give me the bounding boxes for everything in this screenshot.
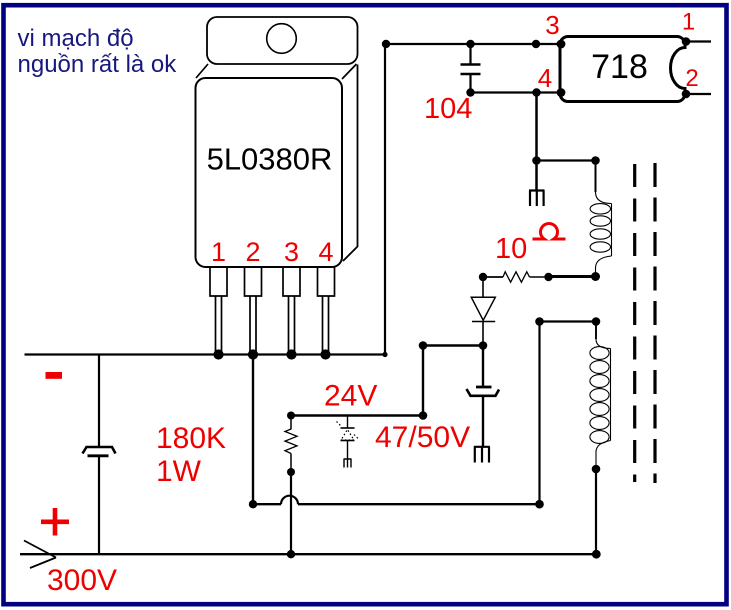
- junction at pin3 wire of U2: [532, 40, 540, 48]
- IC U1 pin 2 lead: [245, 267, 262, 353]
- arrow input 300V: [24, 541, 56, 569]
- svg-text:4: 4: [538, 63, 552, 93]
- svg-text:1: 1: [211, 237, 226, 267]
- transformer T1 core dashed left: [633, 164, 636, 482]
- optocoupler U2 718 body with notch: [560, 37, 685, 102]
- IC U1 side face: [343, 65, 358, 262]
- wire: R2 left lead: [483, 276, 503, 278]
- wire: U2 pin1 stub: [686, 40, 711, 42]
- junction R1 bottom: [287, 468, 295, 476]
- junction primary bottom: [591, 272, 600, 281]
- capacitor C1 104 leads: [469, 44, 471, 93]
- wire: secondary top lead: [595, 322, 597, 340]
- junction pin4-bus: [320, 349, 330, 359]
- junction aux top left: [535, 317, 544, 326]
- junction gnd node: [532, 156, 541, 165]
- svg-text:47/50V: 47/50V: [375, 421, 470, 454]
- wire: aux top y=321.5: [540, 320, 597, 322]
- junction riser corner: [382, 352, 387, 357]
- junction R2 right: [544, 273, 552, 281]
- svg-text:nguồn rất là ok: nguồn rất là ok: [18, 51, 178, 78]
- svg-text:1: 1: [682, 9, 695, 36]
- label ohm symbol: [533, 223, 566, 239]
- IC U1 pin 3 lead: [283, 267, 300, 353]
- wire: top rail y=44: [385, 43, 560, 45]
- wire: U2 pin4 down x=536.5: [535, 93, 538, 161]
- junction R1 top: [287, 412, 295, 420]
- junction pin3-bus: [286, 349, 296, 359]
- annotation note (blue): [18, 25, 178, 78]
- wire: bottom bus y=553.5: [20, 553, 596, 555]
- wire: negative bus y=354.5: [25, 353, 387, 355]
- svg-text:vi mạch độ: vi mạch độ: [18, 25, 134, 52]
- junction 24V rail right: [419, 411, 428, 420]
- capacitor C2 curved plate: [467, 389, 500, 396]
- wire: primary top lead thicker: [595, 161, 597, 193]
- wire: feedback y=503.5 right part: [298, 503, 540, 505]
- IC U1 pin 1 lead: [210, 267, 227, 353]
- ground G1 stem: [535, 161, 538, 191]
- diode D1 triangle: [471, 297, 495, 320]
- zener D2 top bar: [341, 427, 355, 429]
- junction U2 pin4: [557, 88, 566, 97]
- wire: secondary bottom down: [595, 469, 597, 554]
- wire hop over x=291: [281, 496, 298, 505]
- junction node A corner: [419, 341, 428, 350]
- wire: feedback up x=539: [538, 322, 540, 505]
- IC U1 pin 4 lead: [318, 267, 335, 353]
- junction aux top right: [592, 317, 601, 326]
- junction C1 bottom: [466, 88, 474, 96]
- svg-text:1W: 1W: [156, 455, 202, 488]
- junction U2 pin2: [682, 90, 691, 99]
- capacitor C2 flat plate: [476, 386, 492, 389]
- wire: pin2 feedback down x=253: [252, 355, 254, 505]
- transformer T1 secondary winding: [590, 322, 611, 470]
- junction pin2-bus: [248, 349, 258, 359]
- junction R1 wire at bottom bus: [287, 550, 295, 558]
- wire: U2 pin2 stub: [686, 93, 711, 95]
- label plus: [41, 508, 69, 536]
- wire: R1 bottom down to bottom bus: [290, 472, 292, 554]
- capacitor C1 104 plates: [461, 65, 481, 75]
- IC U1 body 5L0380R: [196, 78, 343, 267]
- junction secondary bottom: [592, 465, 601, 474]
- junction pin1-bus: [213, 349, 223, 359]
- diode D1 cathode lead: [482, 322, 484, 346]
- capacitor C2 47/50V top lead: [482, 346, 484, 388]
- svg-text:3: 3: [284, 237, 299, 267]
- svg-text:24V: 24V: [324, 380, 377, 413]
- ground G1 symbol: [529, 191, 545, 207]
- junction bottom bus right end: [592, 550, 601, 559]
- svg-text:10: 10: [495, 233, 527, 265]
- junction D1 anode node: [479, 273, 487, 281]
- capacitor C2 bottom lead: [482, 396, 484, 447]
- junction feedback corner: [249, 500, 257, 508]
- label minus: [46, 372, 63, 379]
- transformer T1 primary winding: [590, 161, 611, 277]
- svg-text:3: 3: [545, 10, 559, 40]
- zener D2 bottom lead: [347, 441, 349, 460]
- junction pin4 rail: [532, 88, 540, 96]
- IC U1 top face edges: [196, 64, 357, 79]
- junction feedback right corner: [535, 500, 544, 509]
- junction D1-C2 node: [479, 341, 488, 350]
- junction U2 pin1: [682, 37, 691, 46]
- capacitor C3 flat plate: [88, 454, 109, 457]
- junction primary top corner: [591, 156, 600, 165]
- wire: gnd node to primary top: [537, 159, 596, 161]
- resistor R1 180K top lead: [290, 416, 292, 430]
- junction C1 top: [466, 40, 474, 48]
- capacitor C3 curved plate: [83, 447, 116, 454]
- wire: node A down x=423: [422, 346, 424, 416]
- svg-text:718: 718: [591, 48, 648, 86]
- ground G3 mini symbol: [344, 459, 352, 468]
- svg-text:180K: 180K: [156, 422, 226, 455]
- diode D1 anode lead: [482, 277, 484, 297]
- resistor R1 180K zigzag: [285, 429, 297, 454]
- wire: C1 bottom to U2 pin4 y=92.5: [471, 91, 561, 93]
- wire: feedback y=503.5 left part: [253, 503, 281, 505]
- wire: riser x=385 up to top rail: [384, 44, 386, 355]
- capacitor C3 input top lead: [98, 355, 100, 448]
- IC U1 package tab: [207, 17, 358, 64]
- zener D2 dotted wings: [337, 422, 359, 440]
- wire: node A horizontal y=345.5: [423, 344, 483, 346]
- diode D1 cathode bar: [472, 321, 495, 323]
- svg-text:300V: 300V: [47, 564, 117, 597]
- wire: R2 right lead: [530, 276, 549, 278]
- svg-text:5L0380R: 5L0380R: [207, 142, 333, 177]
- wire: primary bottom to R2 (thick): [549, 275, 596, 278]
- svg-text:104: 104: [424, 93, 472, 125]
- zener D2 bottom bar: [341, 440, 355, 442]
- zener D2 dotted triangle: [341, 430, 354, 441]
- transformer T1 core dashed right: [653, 163, 656, 483]
- junction U2 pin3: [557, 40, 566, 49]
- svg-text:4: 4: [318, 237, 333, 267]
- ground G2 symbol: [474, 447, 490, 463]
- junction top rail left end: [382, 40, 390, 48]
- wire: 24V rail y=415.5: [291, 414, 423, 417]
- svg-text:2: 2: [245, 237, 260, 267]
- resistor R2 10 ohm zigzag: [503, 272, 530, 282]
- IC U1 mounting hole: [267, 24, 297, 54]
- zener D2 top lead: [347, 416, 349, 429]
- resistor R1 bottom lead: [290, 454, 292, 473]
- capacitor C3 bottom lead: [98, 456, 100, 554]
- svg-text:2: 2: [685, 65, 698, 92]
